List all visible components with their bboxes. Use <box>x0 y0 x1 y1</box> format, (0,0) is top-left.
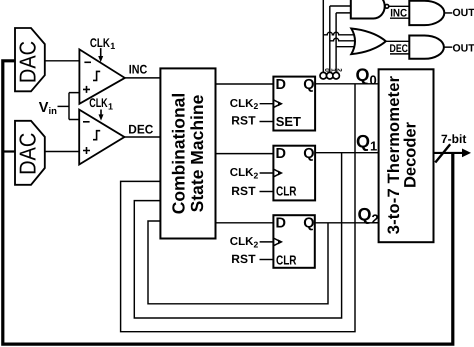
svg-text:INC: INC <box>129 63 148 77</box>
svg-text:OUT: OUT <box>453 7 474 19</box>
svg-text:1: 1 <box>329 68 336 72</box>
svg-text:D: D <box>276 216 286 232</box>
svg-text:Decoder: Decoder <box>401 121 419 188</box>
svg-text:Q: Q <box>303 216 314 232</box>
svg-text:DEC: DEC <box>390 43 409 55</box>
svg-text:2: 2 <box>336 68 343 72</box>
svg-text:Combinational: Combinational <box>169 93 189 215</box>
svg-text:DAC: DAC <box>15 133 41 175</box>
svg-text:CLR: CLR <box>276 184 297 199</box>
svg-text:CLK: CLK <box>90 36 110 50</box>
svg-text:OUT: OUT <box>453 42 474 54</box>
svg-text:DEC: DEC <box>128 123 153 137</box>
svg-text:CLR: CLR <box>276 252 297 267</box>
svg-text:1: 1 <box>110 41 115 51</box>
svg-text:State Machine: State Machine <box>187 94 207 212</box>
svg-text:D: D <box>276 77 286 93</box>
svg-text:Q: Q <box>303 146 314 162</box>
svg-text:7-bit: 7-bit <box>441 132 466 146</box>
svg-text:D: D <box>276 146 286 162</box>
svg-text:3-to-7 Thermometer: 3-to-7 Thermometer <box>385 75 403 234</box>
svg-text:CLK: CLK <box>89 96 108 110</box>
svg-text:RST: RST <box>231 252 256 266</box>
svg-text:RST: RST <box>231 114 256 128</box>
svg-text:SET: SET <box>276 114 301 129</box>
svg-text:Q: Q <box>303 77 314 93</box>
svg-text:1: 1 <box>108 101 113 111</box>
svg-text:0: 0 <box>323 68 330 72</box>
svg-text:DAC: DAC <box>15 41 41 83</box>
svg-text:RST: RST <box>231 184 256 198</box>
svg-text:INC: INC <box>390 7 407 19</box>
